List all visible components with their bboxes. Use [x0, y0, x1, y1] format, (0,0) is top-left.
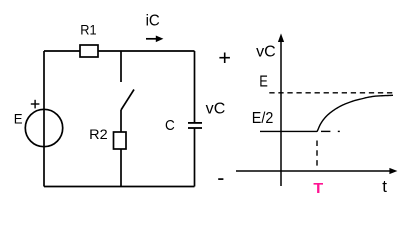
svg-text:T: T [313, 180, 323, 197]
svg-text:E: E [259, 73, 268, 90]
svg-text:iC: iC [146, 13, 160, 30]
svg-text:R2: R2 [89, 126, 108, 142]
svg-text:vC: vC [256, 43, 276, 60]
svg-text:E/2: E/2 [252, 110, 274, 127]
svg-text:C: C [165, 117, 175, 134]
svg-text:t: t [382, 177, 387, 196]
svg-text:E: E [14, 110, 23, 126]
svg-text:vC: vC [206, 100, 226, 117]
svg-text:R1: R1 [80, 22, 96, 38]
